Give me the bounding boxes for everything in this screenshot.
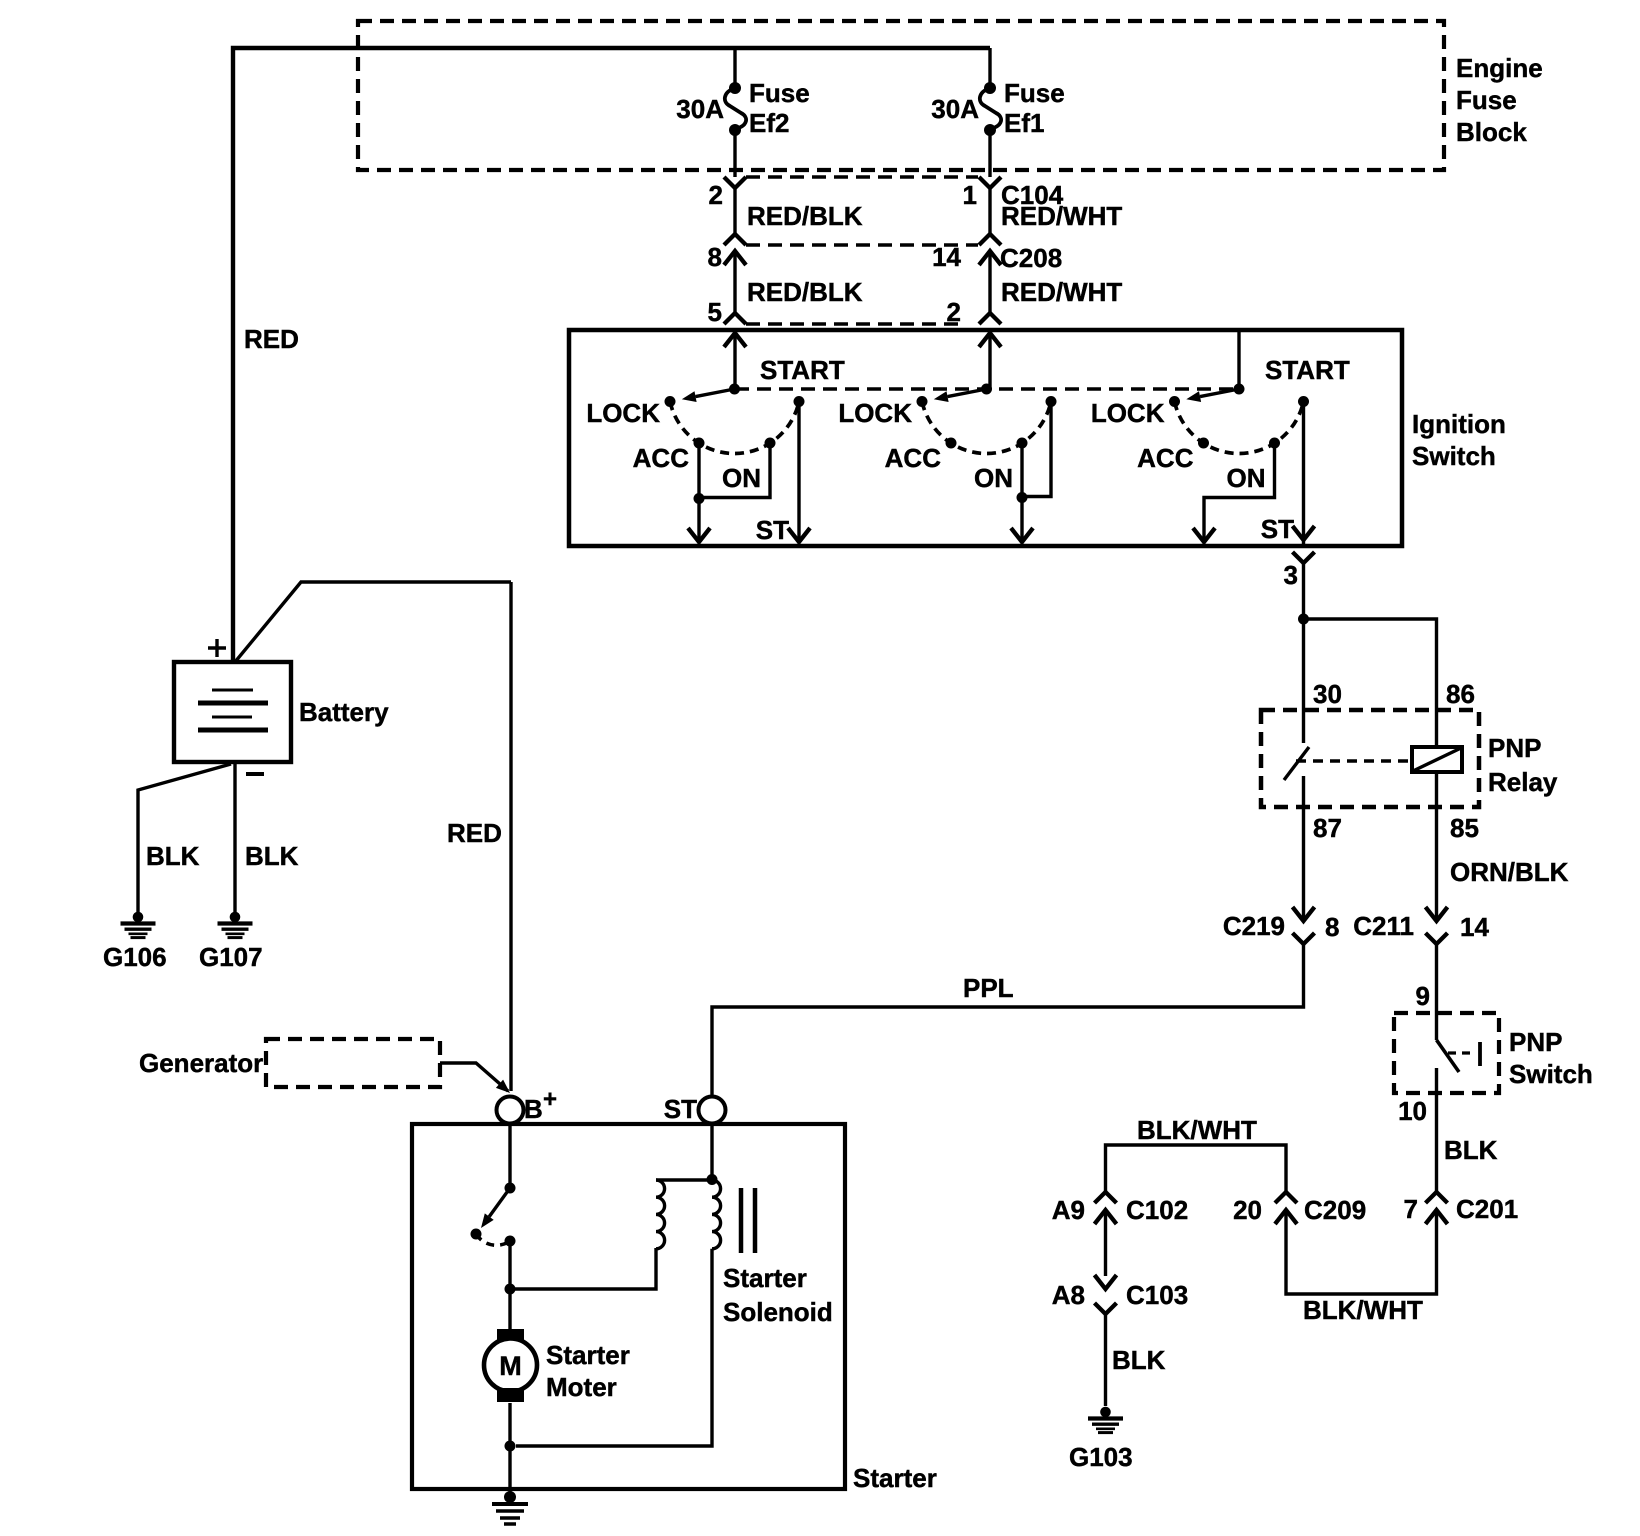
PNP switch pole wire (1435, 1013, 1438, 1040)
svg-text:BLK: BLK (146, 841, 200, 871)
ignition connector pin 5 (fork) (724, 313, 746, 324)
svg-text:30: 30 (1313, 679, 1342, 709)
svg-text:5: 5 (708, 297, 722, 327)
svg-text:RED/BLK: RED/BLK (747, 201, 863, 231)
battery box (174, 662, 291, 762)
wire BLK/WHT (C201 to C209) (1286, 1210, 1437, 1294)
connector C102 pin A9 (1095, 1192, 1117, 1203)
relay actuator dashed link (1296, 759, 1409, 763)
svg-text:Ignition: Ignition (1412, 409, 1506, 439)
ignition contact LOCK 3 (1169, 396, 1180, 407)
ignition third feed wire (1237, 331, 1240, 389)
connector C219 pin 8 (1293, 907, 1315, 921)
svg-text:87: 87 (1313, 813, 1342, 843)
svg-text:ACC: ACC (885, 443, 942, 473)
connector C103 pin A8 (1095, 1275, 1117, 1289)
svg-text:M: M (499, 1351, 522, 1381)
svg-text:Switch: Switch (1509, 1059, 1593, 1089)
ignition contact LOCK 2 (917, 396, 928, 407)
wire group2 START jog (1024, 402, 1051, 497)
wire group2 ON to output (1020, 443, 1023, 497)
battery plates (212, 689, 253, 692)
wire group1 ST output + arrow (797, 402, 800, 541)
ignition switch pivot junction 1 (729, 384, 740, 395)
svg-text:Relay: Relay (1488, 767, 1558, 797)
wire group1 ON jog (701, 443, 770, 498)
ignition contact ON 2 (1017, 438, 1028, 449)
svg-text:A8: A8 (1052, 1280, 1085, 1310)
svg-text:Generator: Generator (139, 1048, 263, 1078)
svg-text:Engine: Engine (1456, 53, 1543, 83)
wire group1 output + arrow (697, 499, 700, 541)
svg-text:14: 14 (1460, 912, 1489, 942)
ignition contact LOCK 1 (665, 396, 676, 407)
svg-text:Fuse: Fuse (1004, 78, 1065, 108)
ground G103 (1100, 1407, 1111, 1418)
wire motor to ground junction (508, 1403, 511, 1446)
generator output wire (440, 1063, 508, 1091)
wire to starter ground (508, 1446, 511, 1494)
wire RED riser to B+ (509, 582, 512, 1091)
svg-text:Battery: Battery (299, 697, 389, 727)
connector C208 dashed tie (746, 243, 978, 247)
terminal ST (699, 1097, 726, 1124)
junction group2 (1017, 492, 1028, 503)
wire BLK battery - to G106 (138, 764, 231, 912)
svg-text:8: 8 (1325, 912, 1339, 942)
ignition connector pin 2 (fork) (979, 313, 1001, 324)
terminal B+ (497, 1097, 524, 1124)
battery plus sign (208, 646, 226, 649)
svg-text:86: 86 (1446, 679, 1475, 709)
connector C201 pin 7 (1426, 1192, 1448, 1203)
ignition contact START 2 (1046, 396, 1057, 407)
wire RED/WHT (C104-1 to C208-14) (988, 188, 991, 233)
svg-text:20: 20 (1233, 1195, 1262, 1225)
svg-text:C219: C219 (1223, 911, 1285, 941)
ignition pin 2 entry arrow + wire (979, 333, 1001, 347)
wire PPL (C219 to starter ST) (712, 944, 1304, 1096)
svg-text:Starter: Starter (546, 1340, 630, 1370)
PNP switch actuator (1448, 1051, 1472, 1054)
connector C208 pin 8 (fork+arrow) (724, 234, 746, 245)
wire pin3 to relay junction (1302, 563, 1305, 619)
wire RED: battery + up and across to fuses (233, 48, 990, 662)
svg-text:RED: RED (447, 818, 502, 848)
svg-text:PPL: PPL (963, 973, 1014, 1003)
svg-text:30A: 30A (676, 94, 724, 124)
svg-text:ON: ON (1227, 463, 1266, 493)
svg-text:C211: C211 (1353, 911, 1414, 941)
svg-text:G106: G106 (103, 942, 167, 972)
solenoid pull-in coil (656, 1180, 665, 1249)
svg-text:RED/BLK: RED/BLK (747, 277, 863, 307)
ignition contact ON 3 (1269, 438, 1280, 449)
svg-text:RED: RED (244, 324, 299, 354)
wire ST into solenoid (710, 1123, 713, 1180)
wire fuse Ef1 top lead (988, 48, 991, 84)
svg-text:Moter: Moter (546, 1372, 617, 1402)
svg-text:RED/WHT: RED/WHT (1001, 201, 1122, 231)
connector C211 pin 14 (1426, 907, 1448, 921)
svg-text:10: 10 (1398, 1096, 1427, 1126)
fuse Ef2 (30A) (729, 82, 741, 94)
svg-text:8: 8 (708, 242, 722, 272)
solenoid switch blade (489, 1188, 510, 1217)
wire coil return (510, 1248, 656, 1289)
svg-text:ORN/BLK: ORN/BLK (1450, 857, 1569, 887)
wire group1 ACC to output (697, 443, 700, 498)
wire junction to relay 30 (1302, 619, 1305, 743)
wire group2 output + arrow (1020, 498, 1023, 541)
svg-text:Solenoid: Solenoid (723, 1297, 833, 1327)
svg-text:B: B (524, 1094, 543, 1124)
ignition switch pivot junction 3 (1234, 384, 1245, 395)
junction group1 (694, 493, 705, 504)
fuse Ef1 (30A) (984, 82, 996, 94)
PNP switch blade (1437, 1040, 1460, 1072)
ignition internal dashed tie (pivot bus) (735, 387, 1239, 391)
svg-text:RED/WHT: RED/WHT (1001, 277, 1122, 307)
svg-text:BLK: BLK (1112, 1345, 1166, 1375)
solenoid switch contact (471, 1229, 482, 1240)
wire BLK/WHT (C209 to C102) (1106, 1145, 1287, 1192)
ignition switch pivot junction 2 (981, 384, 992, 395)
junction motor ground (505, 1441, 516, 1452)
wire relay 87 to C219 (1302, 776, 1305, 921)
junction pull-in coil return (505, 1284, 516, 1295)
connector C104 pin 2 (left fork) (724, 177, 746, 188)
battery minus sign (246, 772, 264, 776)
junction relay feed (1298, 614, 1309, 625)
ignition switch blade 3 (points at LOCK) (1200, 389, 1239, 397)
ignition contact ACC 1 (694, 438, 705, 449)
svg-text:Ef1: Ef1 (1004, 108, 1044, 138)
svg-text:PNP: PNP (1488, 733, 1541, 763)
svg-text:BLK: BLK (245, 841, 299, 871)
ignition pin 5 entry arrow + wire (724, 333, 746, 347)
wire ORN/BLK relay 85 to C211 (1435, 772, 1438, 921)
svg-text:1: 1 (963, 180, 977, 210)
svg-text:BLK: BLK (1444, 1135, 1498, 1165)
svg-text:ACC: ACC (633, 443, 690, 473)
relay coil (1412, 747, 1462, 772)
PNP switch box (1394, 1013, 1499, 1093)
svg-text:ACC: ACC (1137, 443, 1194, 473)
ignition switch box (569, 330, 1402, 546)
wire battery + diagonal to RED riser (235, 582, 511, 662)
svg-text:PNP: PNP (1509, 1027, 1562, 1057)
solenoid contact dot (505, 1236, 516, 1247)
svg-text:LOCK: LOCK (838, 398, 912, 428)
solenoid hold-in coil (712, 1180, 721, 1249)
svg-text:LOCK: LOCK (1091, 398, 1165, 428)
wire BLK PNP switch to C201 (1435, 1093, 1438, 1191)
generator box (266, 1039, 440, 1087)
wire RED/BLK (C208-8 to ignition 5) (733, 251, 736, 313)
wire C102 to C103 (1104, 1210, 1107, 1276)
solenoid switch travel arc (476, 1234, 510, 1245)
svg-text:9: 9 (1416, 981, 1430, 1011)
solenoid switch pivot (505, 1183, 516, 1194)
svg-text:G103: G103 (1069, 1442, 1133, 1472)
connector C209 pin 20 (1275, 1192, 1297, 1203)
ignition contact arc 2 (922, 402, 1051, 454)
svg-text:Fuse: Fuse (1456, 85, 1517, 115)
svg-text:+: + (543, 1086, 557, 1113)
svg-text:Starter: Starter (853, 1463, 937, 1493)
ignition contact ACC 2 (946, 438, 957, 449)
PNP relay box (1261, 710, 1479, 807)
relay switch blade (1284, 747, 1309, 780)
svg-text:Switch: Switch (1412, 441, 1496, 471)
connector C104 dashed tie (746, 175, 978, 179)
svg-text:C208: C208 (1000, 243, 1062, 273)
wire fuse Ef1 bottom lead (988, 134, 991, 177)
wire BLK (C103 to G103) (1104, 1314, 1107, 1406)
ignition contact arc 3 (1175, 402, 1304, 454)
ignition contact START 3 (1298, 396, 1309, 407)
svg-text:LOCK: LOCK (586, 398, 660, 428)
connector pin 3 (fork) (1293, 552, 1315, 563)
wire group3 ON jog to output (1204, 443, 1275, 540)
svg-text:G107: G107 (199, 942, 263, 972)
svg-text:30A: 30A (931, 94, 979, 124)
starter motor M (497, 1329, 524, 1343)
wire junction to relay 86 (1304, 619, 1437, 746)
svg-text:2: 2 (709, 180, 723, 210)
junction ST coil feed (707, 1174, 718, 1185)
svg-text:A9: A9 (1052, 1195, 1085, 1225)
svg-text:START: START (760, 355, 845, 385)
ignition switch blade 1 (points at LOCK) (696, 389, 735, 397)
connector C208 pin 14 (fork+arrow) (979, 234, 1001, 245)
wire coil top tie (656, 1178, 712, 1181)
svg-text:ST: ST (664, 1094, 697, 1124)
PNP switch pin 10 wire (1435, 1068, 1438, 1093)
wire fuse Ef2 top lead (733, 48, 736, 84)
ignition contact arc 1 (670, 402, 799, 454)
svg-text:7: 7 (1404, 1194, 1418, 1224)
wire BLK battery - to G107 (233, 762, 236, 912)
starter ground (504, 1491, 516, 1503)
svg-text:3: 3 (1284, 560, 1298, 590)
svg-text:ON: ON (722, 463, 761, 493)
ignition contact ON 1 (765, 438, 776, 449)
wire junction to motor (508, 1289, 511, 1332)
svg-text:85: 85 (1450, 813, 1479, 843)
svg-text:C201: C201 (1456, 1194, 1518, 1224)
wire hold-in coil to motor return (516, 1249, 712, 1446)
engine fuse block (dashed box) (358, 21, 1444, 170)
arrow group3 ON output (1193, 528, 1215, 542)
svg-text:ST: ST (1261, 514, 1294, 544)
svg-text:Starter: Starter (723, 1263, 807, 1293)
wire RED/WHT (C208-14 to ignition 2) (988, 251, 991, 313)
wire C211 to PNP switch pin 9 (1435, 944, 1438, 1013)
ignition connector dashed tie (746, 322, 962, 326)
wire B+ into solenoid switch (508, 1123, 511, 1188)
svg-text:Fuse: Fuse (749, 78, 810, 108)
wire group3 ST output + arrow (1302, 402, 1305, 545)
svg-text:ON: ON (974, 463, 1013, 493)
svg-text:Ef2: Ef2 (749, 108, 789, 138)
svg-text:START: START (1265, 355, 1350, 385)
ground G106 (133, 912, 144, 923)
ignition contact ACC 3 (1198, 438, 1209, 449)
ground G107 (230, 912, 241, 923)
starter box (412, 1124, 845, 1489)
wire fuse Ef2 bottom lead (733, 134, 736, 177)
ignition contact START 1 (794, 396, 805, 407)
wire switch to motor junction (508, 1241, 511, 1289)
wire RED/BLK (C104-2 to C208-8) (733, 188, 736, 233)
svg-text:C209: C209 (1304, 1195, 1366, 1225)
svg-text:BLK/WHT: BLK/WHT (1303, 1295, 1423, 1325)
svg-text:BLK/WHT: BLK/WHT (1137, 1115, 1257, 1145)
svg-text:C102: C102 (1126, 1195, 1188, 1225)
connector C104 pin 1 (right fork) (979, 177, 1001, 188)
ignition switch blade 2 (points at LOCK) (948, 389, 987, 397)
svg-text:Block: Block (1456, 117, 1527, 147)
solenoid contact bars (739, 1188, 744, 1253)
svg-text:C103: C103 (1126, 1280, 1188, 1310)
svg-text:ST: ST (756, 515, 789, 545)
